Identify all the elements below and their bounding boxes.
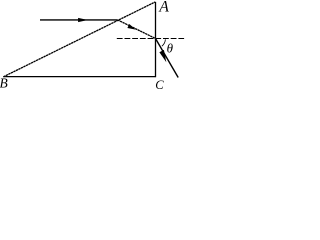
hypotenuse BA (dashed, with faint bridge underlay) [3,2,155,77]
angle arc for theta [162,39,166,46]
svg-text:A: A [158,0,169,16]
svg-text:θ: θ [167,41,174,56]
exit ray (solid) [156,39,179,78]
arrowhead exit ray [159,50,166,62]
arrowhead internal ray [127,24,135,30]
arrowhead incident ray [78,18,88,22]
normal at AC point (dashed horizontal) [117,38,184,40]
incident ray (horizontal, solid) [40,19,118,21]
internal ray (dashed, junction to AC point, faint bridge underlay) [118,20,156,39]
side CA (right vertical, solid) [155,2,157,77]
svg-text:C: C [155,78,164,90]
svg-text:B: B [0,76,8,90]
side BC (bottom, solid) [3,76,155,78]
